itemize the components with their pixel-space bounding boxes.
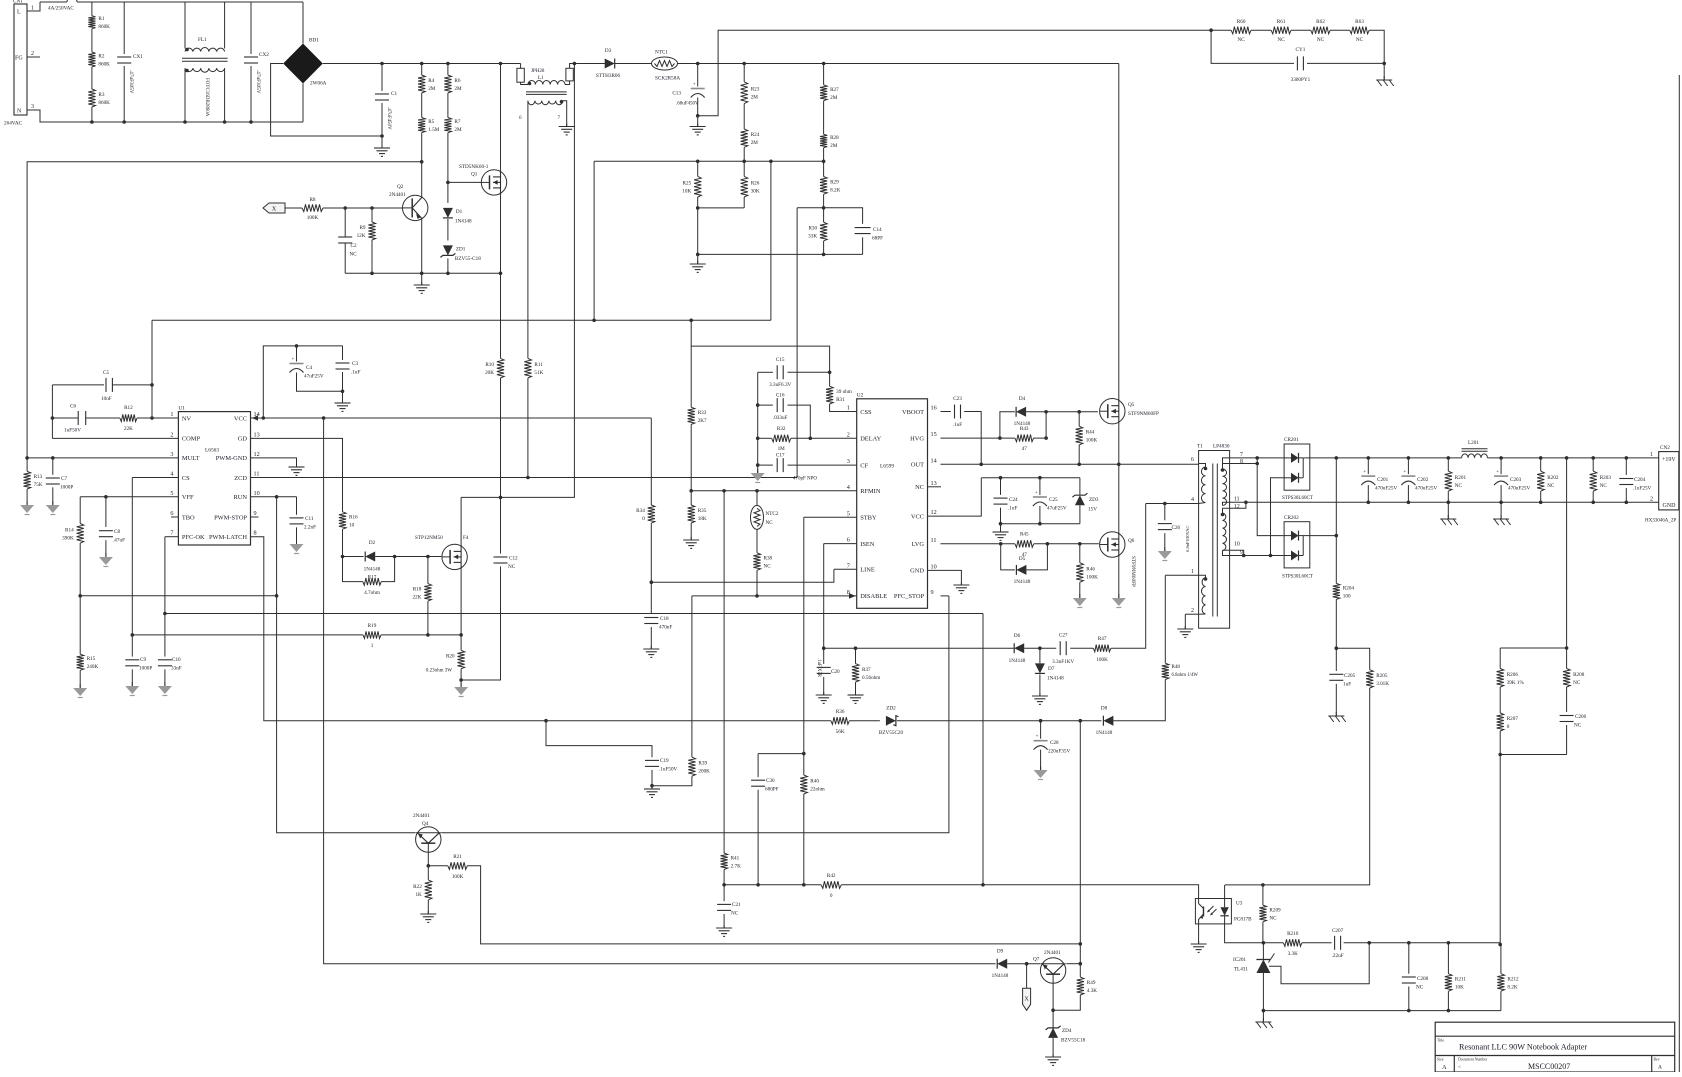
svg-text:DISABLE: DISABLE (860, 593, 887, 600)
svg-text:200K: 200K (698, 769, 710, 775)
svg-text:X: X (272, 207, 277, 213)
junction (722, 489, 726, 493)
wire (112, 384, 152, 386)
wire (1040, 750, 1042, 770)
svg-text:Q6: Q6 (1128, 538, 1135, 544)
svg-text:NC: NC (915, 484, 924, 491)
ground (1045, 1054, 1061, 1065)
ground (643, 646, 659, 657)
resistor R208 (1563, 669, 1585, 688)
junction (822, 62, 826, 66)
wire (461, 567, 500, 681)
capacitor C1 (375, 91, 397, 100)
svg-text:Resonant LLC 90W Notebook Adap: Resonant LLC 90W Notebook Adapter (1459, 1043, 1587, 1052)
wire (1184, 614, 1186, 629)
svg-text:6: 6 (847, 537, 850, 544)
svg-text:+: + (1496, 470, 1499, 475)
junction (1565, 646, 1569, 650)
node X (1023, 988, 1031, 1010)
svg-text:C25: C25 (1049, 497, 1058, 503)
wire (132, 634, 363, 636)
wire (1592, 491, 1594, 502)
wire (1500, 458, 1502, 474)
wire (27, 162, 422, 458)
resistor R4 (418, 75, 436, 93)
svg-text:R28: R28 (830, 135, 839, 141)
svg-text:C18: C18 (660, 616, 669, 622)
svg-text:13: 13 (254, 431, 260, 438)
svg-text:6: 6 (170, 510, 173, 517)
wire (427, 601, 429, 635)
svg-text:CX1: CX1 (133, 54, 143, 60)
svg-text:L6563: L6563 (205, 448, 219, 454)
wire (137, 417, 178, 419)
junction (343, 206, 347, 210)
resistor R19 (363, 623, 381, 649)
svg-text:10nF: 10nF (101, 396, 112, 402)
junction (1117, 463, 1121, 467)
svg-text:1N4148: 1N4148 (1014, 421, 1031, 427)
wire (285, 207, 302, 209)
wire (1111, 504, 1146, 649)
junction (499, 496, 503, 500)
resistor R44 (1076, 426, 1098, 445)
svg-text:R2: R2 (98, 54, 104, 60)
resistor R6 (444, 75, 462, 93)
wire (1052, 1038, 1054, 1057)
resistor R15 (77, 654, 99, 670)
svg-text:47uF25V: 47uF25V (1047, 506, 1067, 512)
svg-text:22K: 22K (124, 426, 133, 432)
resistor R33 (688, 407, 707, 424)
svg-text:12: 12 (931, 509, 937, 516)
junction (1335, 646, 1339, 650)
resistor R205 (1366, 670, 1389, 688)
svg-text:R201: R201 (1455, 475, 1467, 481)
svg-text:R16: R16 (349, 515, 358, 521)
svg-text:RUN: RUN (234, 494, 248, 501)
junction (1038, 522, 1042, 526)
svg-text:2.2nF: 2.2nF (304, 525, 316, 531)
junction (1209, 28, 1213, 32)
wire (1499, 755, 1501, 945)
svg-text:+19V: +19V (1662, 457, 1676, 463)
svg-text:R18: R18 (413, 586, 422, 592)
junction (1078, 542, 1082, 546)
wire (743, 64, 745, 82)
wire (841, 885, 1198, 899)
ground (1177, 626, 1193, 637)
wire (296, 346, 298, 362)
junction (370, 272, 374, 276)
junction (90, 120, 94, 124)
svg-text:3.3nF1KV: 3.3nF1KV (1052, 659, 1074, 665)
wire (757, 790, 759, 885)
wire (1263, 942, 1283, 944)
svg-text:C7: C7 (61, 476, 67, 482)
wire (546, 721, 652, 758)
wire (1070, 647, 1093, 649)
svg-text:2: 2 (1191, 608, 1194, 614)
junction (25, 456, 29, 460)
wire (697, 64, 699, 87)
ground (125, 682, 139, 696)
svg-text:L6599: L6599 (880, 464, 894, 470)
svg-text:C14: C14 (873, 227, 882, 233)
svg-text:R23: R23 (751, 87, 760, 93)
svg-text:8: 8 (254, 530, 257, 537)
svg-text:STTH3R06: STTH3R06 (596, 73, 621, 79)
wire (1230, 502, 1246, 508)
wire (743, 197, 745, 208)
svg-text:2M: 2M (830, 143, 838, 149)
wire (27, 56, 40, 58)
wire (690, 346, 692, 407)
svg-text:.47uF305V: .47uF305V (255, 70, 261, 94)
resistor R212 (1497, 974, 1519, 992)
svg-text:R63: R63 (1355, 19, 1364, 25)
svg-text:C201: C201 (1377, 477, 1389, 483)
junction (742, 62, 746, 66)
wire (500, 195, 502, 273)
junction (446, 181, 450, 185)
svg-text:R26: R26 (751, 181, 760, 187)
svg-text:1N4148: 1N4148 (364, 567, 381, 573)
svg-text:LVG: LVG (911, 541, 924, 548)
svg-text:MULT: MULT (182, 455, 200, 462)
wire (594, 160, 824, 162)
wire (1488, 457, 1659, 459)
svg-text:D1: D1 (456, 209, 463, 215)
wire (1499, 648, 1501, 669)
wire (40, 1, 67, 3)
connector CN2 (1645, 445, 1679, 524)
wire (343, 557, 363, 582)
wire (941, 463, 1199, 465)
ground (953, 582, 969, 593)
wire (1262, 922, 1264, 943)
wire (164, 669, 166, 686)
wire (263, 346, 342, 418)
junction (769, 160, 773, 164)
wire (1079, 544, 1081, 563)
wire (1185, 613, 1198, 615)
svg-text:7: 7 (558, 115, 561, 121)
wire (421, 93, 423, 118)
wire (500, 378, 502, 497)
capacitor C15 (769, 357, 791, 388)
svg-text:1: 1 (1650, 452, 1653, 458)
svg-text:R15: R15 (87, 656, 96, 662)
svg-text:CX2: CX2 (259, 52, 269, 58)
wire (1330, 29, 1350, 31)
wire (1164, 575, 1166, 663)
capacitor C7 (46, 476, 74, 491)
svg-text:Q5: Q5 (1128, 402, 1135, 408)
svg-text:STPS30L60CT: STPS30L60CT (1282, 575, 1313, 580)
resistor R21 (448, 854, 468, 880)
wire (447, 258, 449, 273)
svg-text:470uF25V: 470uF25V (1508, 486, 1530, 492)
svg-text:2.7K: 2.7K (731, 863, 741, 869)
inductor L201 (1462, 440, 1488, 458)
svg-text:C4: C4 (306, 365, 312, 371)
capacitor C206 (1560, 714, 1587, 729)
capacitor C13 (691, 83, 705, 98)
svg-text:R38: R38 (764, 556, 773, 562)
diode CR202 (1282, 515, 1313, 580)
svg-text:R21: R21 (453, 854, 462, 860)
zener ZD4 (1046, 1026, 1086, 1044)
wire (131, 635, 133, 657)
wire (1566, 725, 1568, 755)
svg-text:8: 8 (1240, 459, 1243, 465)
wire (1500, 485, 1502, 502)
svg-text:CY1: CY1 (1295, 47, 1305, 53)
wire (928, 570, 962, 585)
wire (690, 424, 692, 490)
wire (460, 635, 462, 650)
svg-text:R14: R14 (65, 527, 74, 533)
junction (370, 206, 374, 210)
svg-text:NC: NC (350, 252, 358, 258)
wire (928, 478, 982, 516)
svg-text:R25: R25 (683, 181, 692, 187)
wire (1230, 463, 1258, 465)
wire (823, 241, 825, 255)
wire (302, 2, 304, 44)
capacitor C202 (1401, 470, 1437, 491)
wire (1211, 29, 1231, 31)
junction (755, 489, 759, 493)
svg-text:0: 0 (830, 893, 833, 899)
wire (1540, 458, 1542, 471)
capacitor C205 (1329, 673, 1355, 688)
svg-text:NC: NC (731, 911, 739, 917)
svg-text:C3: C3 (352, 361, 358, 367)
resistor R28 (820, 134, 839, 149)
wire (343, 556, 364, 558)
wire (79, 596, 81, 654)
svg-text:L1: L1 (538, 76, 544, 81)
resistor R8 (302, 197, 323, 221)
svg-text:C19: C19 (660, 758, 669, 764)
wire (982, 614, 984, 885)
wire (427, 557, 429, 584)
junction (1025, 962, 1029, 966)
inductor L1 (517, 68, 573, 121)
capacitor C10 (158, 657, 182, 672)
capacitor C4 (290, 358, 324, 380)
svg-text:NTC1: NTC1 (655, 50, 668, 56)
svg-text:BZV55C18: BZV55C18 (1061, 1038, 1086, 1044)
wire (1335, 648, 1337, 671)
svg-text:NC: NC (1455, 483, 1463, 489)
wire (1052, 983, 1054, 1029)
svg-text:R208: R208 (1573, 672, 1585, 678)
wire (1026, 411, 1098, 413)
junction (1244, 501, 1248, 505)
svg-text:U2: U2 (857, 393, 864, 399)
svg-text:R24: R24 (751, 132, 760, 138)
capacitor CX1 (117, 54, 143, 63)
svg-text:R211: R211 (1455, 977, 1466, 983)
resistor R7 (444, 118, 462, 134)
svg-text:CSS: CSS (860, 409, 872, 416)
svg-text:C1: C1 (391, 91, 397, 97)
wire (1078, 412, 1080, 426)
svg-text:C26: C26 (1172, 525, 1181, 531)
resistor R32 (772, 426, 791, 452)
svg-text:12: 12 (1234, 504, 1240, 510)
wire (460, 497, 462, 544)
wire (756, 491, 758, 506)
fuse F1 (48, 0, 77, 12)
svg-text:1000P: 1000P (60, 485, 73, 491)
wire (1079, 478, 1081, 496)
wire (251, 438, 343, 511)
svg-text:VFF: VFF (182, 494, 194, 501)
svg-text:Title: Title (1437, 1039, 1444, 1043)
wire (823, 194, 825, 222)
wire (1447, 991, 1449, 1010)
wire (678, 63, 1119, 65)
svg-text:0.23ohm 3W: 0.23ohm 3W (426, 669, 452, 674)
wire (1566, 458, 1568, 648)
junction (163, 612, 167, 616)
diode D2 (364, 540, 381, 573)
junction (1039, 719, 1043, 723)
svg-text:100K: 100K (307, 215, 319, 221)
regulator IC201 (1233, 954, 1274, 974)
optocoupler U3 (1195, 899, 1252, 924)
wire (251, 516, 259, 518)
wire (1026, 544, 1047, 570)
resistor R14 (62, 524, 84, 544)
svg-text:C10: C10 (172, 657, 181, 663)
diode D6 (1009, 633, 1026, 664)
junction (341, 555, 345, 559)
svg-text:R5: R5 (428, 119, 434, 125)
resistor R25 (682, 176, 701, 197)
ground (1112, 594, 1126, 608)
svg-text:C208: C208 (1417, 976, 1429, 982)
junction (526, 476, 530, 480)
wire (1257, 458, 1284, 536)
ground (374, 145, 390, 156)
junction (544, 719, 548, 723)
svg-text:7: 7 (170, 530, 173, 537)
svg-text:C24: C24 (1009, 497, 1018, 503)
resistor R207 (1497, 713, 1519, 731)
junction (802, 883, 806, 887)
junction (981, 883, 985, 887)
junction (426, 633, 430, 637)
junction (998, 436, 1002, 440)
wire (1118, 557, 1120, 598)
wire (441, 596, 949, 833)
wire (1262, 885, 1264, 905)
svg-text:R46: R46 (1086, 567, 1095, 573)
resistor R26 (741, 176, 760, 197)
capacitor C16 (773, 393, 788, 422)
wire (381, 634, 461, 636)
junction (1038, 646, 1042, 650)
junction (1447, 1009, 1451, 1013)
capacitor C14 (855, 227, 883, 242)
wire (1039, 478, 1041, 495)
wire (1066, 963, 1080, 965)
resistor R43 (1015, 426, 1034, 452)
wire (105, 540, 107, 557)
resistor R201 (1445, 471, 1467, 491)
svg-text:10: 10 (349, 523, 355, 529)
resistor R37 (852, 664, 880, 683)
junction (150, 383, 154, 387)
svg-text:STPS30L60CT: STPS30L60CT (1282, 496, 1313, 501)
wire (1230, 550, 1244, 555)
svg-text:HVG: HVG (910, 435, 924, 442)
svg-text:N: N (17, 109, 22, 115)
ground (414, 282, 430, 293)
junction (696, 253, 700, 257)
svg-text:D9: D9 (997, 949, 1004, 955)
junction (1565, 456, 1569, 460)
wire (1146, 503, 1199, 505)
wire (1118, 424, 1120, 464)
wire (1500, 647, 1566, 649)
svg-text:1: 1 (371, 643, 374, 649)
junction (380, 62, 384, 66)
svg-text:390K: 390K (62, 535, 74, 541)
wire (500, 497, 502, 553)
svg-text:R44: R44 (1086, 430, 1095, 436)
wire (1007, 963, 1040, 965)
capacitor C6 (64, 404, 86, 434)
svg-text:A: A (1658, 1065, 1662, 1071)
svg-text:75K: 75K (34, 482, 43, 488)
svg-text:+: + (1363, 470, 1366, 475)
svg-text:R11: R11 (534, 362, 543, 368)
junction (420, 160, 424, 164)
svg-text:L201: L201 (1468, 440, 1479, 446)
wire (91, 67, 93, 89)
svg-text:C28: C28 (1050, 740, 1059, 746)
wire (165, 536, 179, 538)
svg-text:2M: 2M (751, 140, 759, 146)
resistor R39 (688, 757, 710, 776)
svg-text:PFC_STOP: PFC_STOP (894, 593, 925, 600)
svg-text:10K: 10K (1455, 985, 1464, 991)
svg-text:.1uF X7R: .1uF X7R (816, 658, 821, 678)
wire (421, 219, 423, 274)
ground (993, 529, 1009, 540)
junction (51, 416, 55, 420)
svg-text:470pF NPO: 470pF NPO (793, 477, 817, 482)
svg-text:R206: R206 (1507, 672, 1519, 678)
junction (1498, 943, 1502, 947)
svg-text:9: 9 (931, 589, 934, 596)
diode D8 (1096, 706, 1114, 737)
resistor R210 (1283, 931, 1302, 957)
resistor R206 (1497, 669, 1525, 688)
wire (1625, 458, 1627, 475)
wire (224, 68, 226, 122)
wire (1336, 648, 1369, 670)
wire (1408, 943, 1410, 974)
wire (981, 477, 1080, 479)
svg-text:R33: R33 (698, 410, 707, 416)
